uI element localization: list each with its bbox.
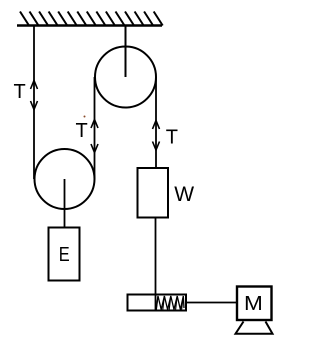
wire: left rope ceiling to P2 left tangent — [33, 26, 35, 179]
wire: damper box to motor M — [187, 302, 237, 304]
block E — [49, 228, 80, 281]
wire: support rod ceiling to P1 center — [125, 26, 127, 77]
wire: hanger P2 center to block E — [64, 179, 66, 227]
wire: block W down to damper box — [155, 218, 157, 311]
stray dot — [84, 116, 86, 118]
pulley P1 (large, upper) — [95, 47, 156, 108]
svg-text:T: T — [14, 81, 26, 103]
svg-text:T: T — [76, 120, 88, 142]
ceiling hatching — [20, 12, 163, 26]
arrow pair middle rope (tension T) — [91, 120, 98, 153]
spring coil inside damper box — [156, 296, 184, 310]
block W — [138, 168, 169, 218]
arrow pair right rope (tension T) — [153, 121, 160, 151]
svg-text:W: W — [174, 183, 194, 206]
svg-text:M: M — [244, 292, 263, 314]
arrow pair left rope (tension T) — [31, 81, 38, 110]
wire: middle rope P2 right tangent to P1 left tangent — [94, 77, 96, 179]
motor M box — [237, 287, 272, 321]
svg-text:T: T — [166, 127, 178, 149]
motor base trapezoid — [236, 322, 273, 334]
svg-text:E: E — [59, 242, 70, 265]
damper box — [128, 295, 187, 311]
wire: right rope P1 right tangent to block W — [155, 77, 157, 168]
pulley P2 (small, left) — [35, 149, 95, 209]
ceiling line — [17, 24, 162, 26]
spring coil return strokes — [156, 296, 183, 310]
